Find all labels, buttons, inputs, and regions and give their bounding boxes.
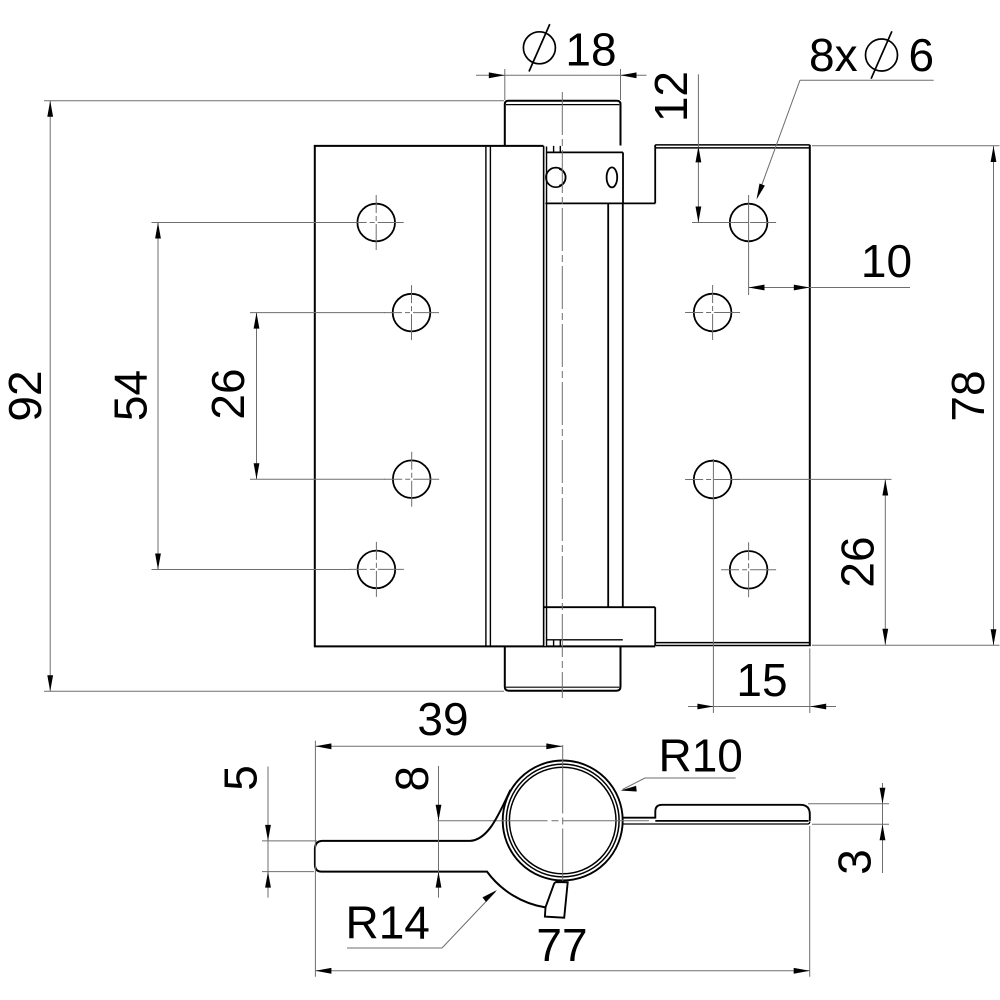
dimension 26 left <box>250 313 385 480</box>
bottom adjuster block <box>544 607 655 646</box>
screw holes left leaf <box>357 204 430 589</box>
spring end tab <box>545 882 568 918</box>
dimension 54 <box>152 223 351 570</box>
dimension 10 <box>749 287 911 289</box>
tension bolt head <box>546 168 566 188</box>
svg-text:3: 3 <box>829 849 881 875</box>
svg-text:12: 12 <box>645 71 697 122</box>
dimension 26 right <box>734 479 892 644</box>
top adjuster block <box>546 152 656 203</box>
label R14 with leader <box>347 892 496 949</box>
label 8x dia 6 with leader <box>758 80 934 197</box>
dimension 5 <box>262 767 317 898</box>
svg-text:78: 78 <box>942 370 994 421</box>
svg-text:5: 5 <box>215 765 267 791</box>
svg-text:10: 10 <box>861 235 912 287</box>
svg-text:26: 26 <box>832 536 884 587</box>
svg-text:92: 92 <box>0 370 51 421</box>
svg-text:6: 6 <box>909 29 935 81</box>
pin center line <box>561 92 563 698</box>
bottom cap <box>505 647 621 691</box>
svg-text:R10: R10 <box>659 730 743 782</box>
dimension 77 <box>315 741 809 977</box>
left leaf fold edges <box>486 147 491 646</box>
dimension 8 <box>438 766 440 898</box>
oval hole in block <box>607 167 618 187</box>
left leaf section (bar + neck) <box>315 841 546 908</box>
svg-text:15: 15 <box>736 654 787 706</box>
svg-text:26: 26 <box>202 368 254 419</box>
dimension 3 <box>808 783 889 873</box>
svg-text:8: 8 <box>386 766 438 792</box>
dimension dia 18 <box>476 69 647 100</box>
circle center lines <box>562 745 564 881</box>
svg-text:R14: R14 <box>346 897 430 949</box>
screw holes right leaf <box>694 204 768 589</box>
left leaf plate <box>314 145 655 647</box>
dimension 92 <box>44 101 504 692</box>
svg-text:39: 39 <box>417 693 468 745</box>
right leaf section bar <box>623 805 809 821</box>
dimension 39 <box>315 745 562 747</box>
svg-text:8x: 8x <box>809 29 858 81</box>
dimension 78 <box>812 146 1000 646</box>
svg-text:77: 77 <box>536 919 587 971</box>
svg-text:18: 18 <box>565 24 616 76</box>
spring coil circles <box>503 761 623 881</box>
spring tube right edges <box>608 203 623 607</box>
pin slot top <box>554 146 561 153</box>
svg-text:54: 54 <box>105 370 157 421</box>
spring tube left edge <box>544 146 547 647</box>
hole crosshairs <box>349 195 776 597</box>
dimension 12 <box>692 74 749 295</box>
right leaf plate <box>655 145 811 646</box>
top cap (18 dia) <box>505 101 621 146</box>
label R10 with leader <box>623 778 736 790</box>
dimension 15 <box>688 459 836 713</box>
